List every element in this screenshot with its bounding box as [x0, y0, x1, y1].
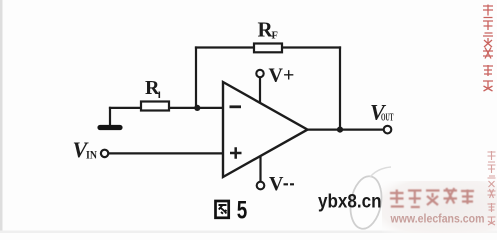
resistor R1	[141, 102, 169, 111]
svg-text:5: 5	[237, 197, 248, 225]
wire feedback left vertical	[195, 48, 197, 108]
wire output	[308, 129, 384, 131]
svg-text:V: V	[269, 173, 284, 195]
svg-text:V+: V+	[269, 65, 295, 87]
wire VIN to + input	[108, 152, 223, 154]
plus sign non-inverting input	[230, 147, 242, 158]
watermark red vertical top-right	[483, 5, 493, 92]
watermark red vertical bottom-right	[488, 151, 496, 225]
svg-text:ybx8.cn: ybx8.cn	[318, 192, 382, 213]
svg-text:OUT: OUT	[381, 113, 394, 124]
svg-text:www.elecfans.com: www.elecfans.com	[390, 212, 485, 226]
terminal VIN open circle	[101, 150, 108, 157]
terminal V+	[256, 70, 263, 77]
caption figure 5 : hand-drawn CJK glyph for TU (picture)	[216, 201, 229, 218]
wire feedback right vertical	[339, 48, 341, 130]
left page edge shading	[0, 0, 3, 233]
wire R1 input horizontal	[110, 107, 223, 109]
terminal VOUT open circle	[384, 126, 392, 134]
bottom edge shading	[0, 231, 497, 234]
node junction at inverting input	[194, 105, 200, 111]
wire V+ stem	[259, 77, 261, 103]
ground	[100, 125, 120, 130]
label R1	[145, 77, 160, 99]
watermark background wash bottom-right	[0, 0, 1, 1]
svg-text:IN: IN	[86, 148, 97, 162]
wire V- stem	[259, 157, 261, 182]
svg-text:F: F	[272, 31, 278, 42]
label VIN	[73, 137, 98, 162]
svg-text:R: R	[145, 77, 160, 99]
label V-	[269, 173, 294, 195]
terminal V-	[257, 182, 265, 190]
wire ground stem	[109, 108, 111, 125]
label VOUT	[370, 100, 394, 125]
resistor RF	[254, 44, 282, 53]
wire feedback top horizontal	[196, 46, 340, 48]
watermark bottom calligraphy dian zi fa shao you	[390, 188, 474, 207]
label RF	[258, 18, 278, 42]
node output junction	[337, 127, 343, 133]
op-amp U1	[223, 82, 308, 177]
minus sign inverting input	[230, 105, 242, 108]
watermark circle behind ybx8	[347, 167, 391, 231]
